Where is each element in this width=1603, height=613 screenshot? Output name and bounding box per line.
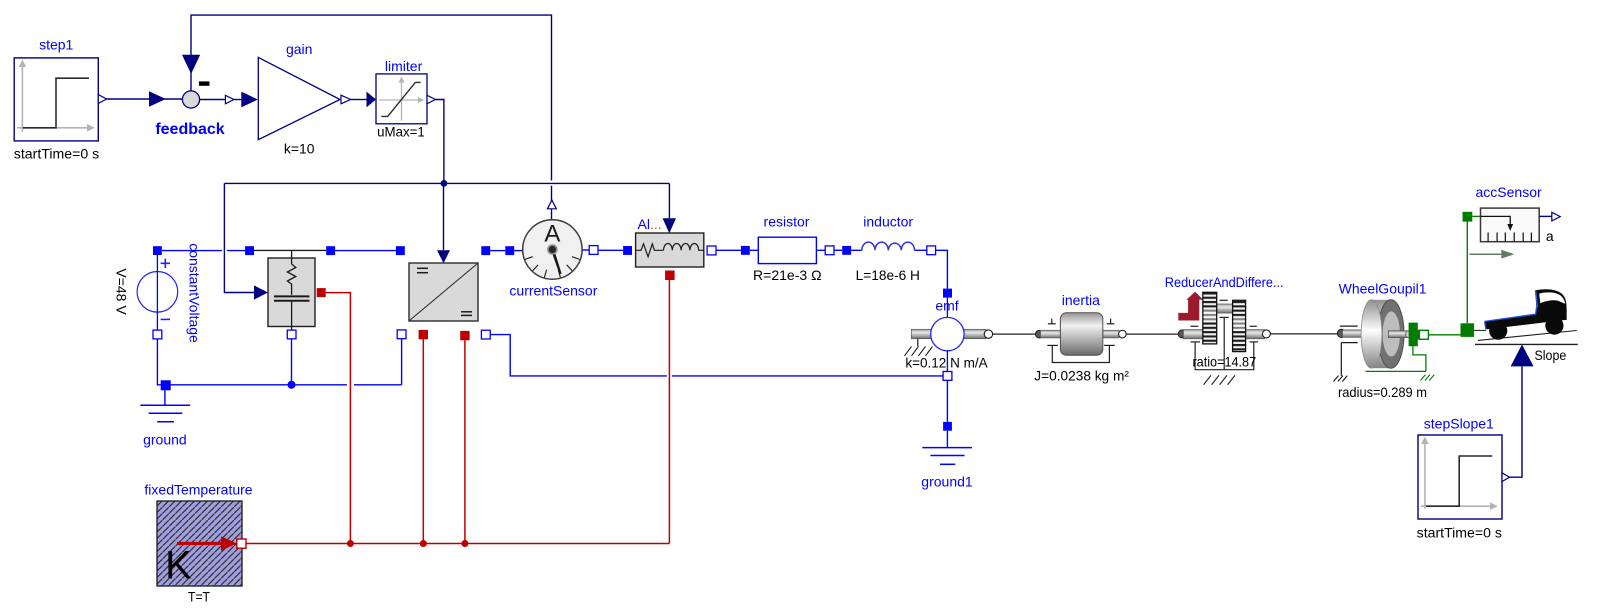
ground bus bottom-left (gap at red crossing) [166, 384, 347, 386]
wire gain to limiter [351, 99, 367, 101]
svg-text:L=18e-6 H: L=18e-6 H [856, 267, 920, 283]
wire sensor to AI block [582, 249, 589, 251]
AI power stage block [623, 216, 716, 280]
thermal wire AI block [668, 280, 670, 544]
stepSlope1 [1417, 416, 1510, 541]
wire feedback top loop from currentSensor [191, 15, 552, 180]
limiter [376, 58, 435, 140]
junction dot [441, 180, 448, 187]
svg-text:fixedTemperature: fixedTemperature [144, 482, 252, 498]
wire battery to converter pin [335, 250, 396, 252]
wire wheel to vehicle flange [1428, 334, 1461, 336]
svg-text:R=21e-3 Ω: R=21e-3 Ω [753, 267, 822, 283]
branch to converter input [443, 183, 445, 250]
wire AI to resistor [716, 249, 741, 251]
svg-text:A: A [544, 221, 560, 248]
wire flange up to accSensor [1466, 221, 1468, 323]
branch to battery input [224, 183, 254, 292]
thermal wire converter right [464, 340, 466, 543]
svg-text:ground: ground [143, 432, 187, 448]
branch to AI block input [668, 183, 670, 218]
thermal wire converter left [422, 339, 424, 543]
inductor L [842, 214, 935, 284]
svg-text:startTime=0 s: startTime=0 s [1417, 524, 1502, 540]
WheelGoupil1 [1334, 280, 1435, 400]
wire resistor to inductor [834, 249, 842, 251]
svg-text:feedback: feedback [155, 121, 224, 138]
battery block [254, 250, 326, 338]
emf top pin [943, 289, 952, 298]
emf bottom pin [943, 372, 952, 381]
feedback F1 [155, 81, 234, 138]
vehicle (truck on slope) [1474, 289, 1578, 363]
emf [905, 298, 993, 372]
svg-text:stepSlope1: stepSlope1 [1424, 416, 1494, 432]
thermal wire battery [326, 293, 351, 544]
svg-text:inertia: inertia [1062, 292, 1100, 308]
wire converter bottom-right to emf bus [490, 335, 667, 376]
svg-text:Al...: Al... [638, 216, 662, 232]
wire stepSlope1 to vehicle [1509, 366, 1522, 477]
ReducerAndDifferential [1165, 274, 1284, 385]
svg-text:limiter: limiter [385, 58, 423, 74]
svg-text:J=0.0238 kg m²: J=0.0238 kg m² [1034, 367, 1129, 383]
wire voltage to battery pin (gap at signal crossing) [162, 250, 222, 252]
constantVoltage [114, 243, 203, 343]
svg-text:a: a [1546, 228, 1554, 244]
converter bottom pins [397, 330, 406, 339]
svg-text:ReducerAndDiffere...: ReducerAndDiffere... [1165, 274, 1284, 290]
svg-text:Slope: Slope [1535, 347, 1567, 363]
svg-text:startTime=0 s: startTime=0 s [14, 146, 99, 162]
svg-text:V=48 V: V=48 V [114, 268, 130, 315]
svg-text:ground1: ground1 [921, 474, 973, 490]
currentSensor [509, 220, 597, 299]
svg-text:step1: step1 [39, 37, 73, 53]
Slope input arrow [1511, 345, 1534, 367]
node battery top right [326, 246, 335, 255]
svg-text:resistor: resistor [764, 214, 810, 230]
sensor right pin [589, 246, 598, 255]
currentSensor output connector [547, 200, 556, 209]
wire inductor to emf [936, 250, 948, 288]
svg-text:uMax=1: uMax=1 [377, 124, 425, 140]
svg-text:emf: emf [935, 298, 958, 314]
step1 [14, 37, 107, 162]
svg-text:gain: gain [286, 41, 312, 57]
resistor R [741, 214, 834, 284]
svg-text:K: K [165, 544, 192, 588]
svg-text:k=0.12 N m/A: k=0.12 N m/A [905, 354, 988, 370]
svg-text:T=T: T=T [188, 589, 210, 605]
svg-text:k=10: k=10 [284, 141, 315, 157]
svg-text:WheelGoupil1: WheelGoupil1 [1339, 280, 1427, 296]
wire converter bottom-left to ground bus [401, 339, 403, 385]
signal bus y=183 [224, 182, 669, 184]
svg-text:inductor: inductor [863, 214, 913, 230]
thermal bus [246, 543, 669, 545]
converter U1 [409, 263, 478, 321]
converter top right pin [481, 246, 490, 255]
svg-text:radius=0.289 m: radius=0.289 m [1338, 384, 1427, 400]
fixedTemperature [144, 482, 252, 605]
wire converter to sensor [490, 250, 505, 252]
inertia [1034, 292, 1129, 383]
wire emf to ground1 [946, 380, 948, 422]
shaft emf to inertia [993, 333, 1036, 335]
vehicle flange node [1461, 323, 1475, 337]
ground1 [921, 431, 973, 490]
accSensor [1463, 184, 1561, 244]
sensor left pin [505, 246, 514, 255]
velocity direction arrow [1469, 250, 1514, 259]
ground [140, 390, 190, 447]
svg-text:accSensor: accSensor [1476, 184, 1542, 200]
shaft reducer to wheel [1270, 333, 1337, 335]
shaft inertia to reducer [1126, 333, 1178, 335]
wire feedback to gain [234, 99, 241, 101]
node battery top left [245, 246, 254, 255]
wire step1 to feedback [107, 98, 183, 100]
svg-text:constantVoltage: constantVoltage [187, 243, 203, 343]
svg-text:ratio=14.87: ratio=14.87 [1192, 354, 1256, 370]
svg-text:currentSensor: currentSensor [509, 283, 597, 299]
wire limiter output down to bus [435, 100, 444, 184]
converter dc pin top left [396, 246, 405, 255]
gain [258, 41, 350, 157]
ground pin [161, 380, 171, 390]
